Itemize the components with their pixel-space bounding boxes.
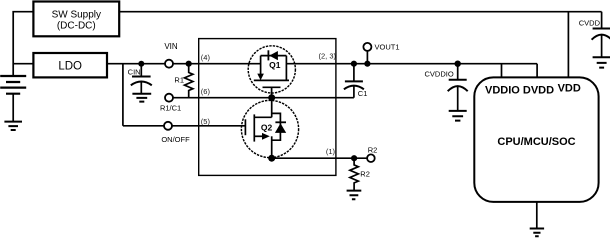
transistor Q1 [248,46,295,98]
svg-text:LDO: LDO [58,61,82,73]
wire battery to LDO input [13,63,33,65]
junction VOUT1 [364,61,370,67]
resistor R2 [350,158,358,190]
block CPU/MCU/SOC [474,77,598,201]
wire CPU to ground [536,202,538,229]
ground (CVDD) [593,57,610,67]
junction R1 top [186,61,192,67]
wire SW Supply output top rail [119,11,601,13]
svg-text:(4): (4) [201,53,211,62]
junction CVDDIO [455,61,461,67]
wire VDD branch [567,12,569,78]
junction Q2 source node [268,155,275,162]
svg-text:CVDD: CVDD [579,18,601,27]
junction C1 [351,61,357,67]
svg-text:VDDIO DVDD: VDDIO DVDD [485,85,554,97]
svg-text:ON/OFF: ON/OFF [161,135,190,144]
ground (battery) [4,122,22,130]
svg-text:SW Supply: SW Supply [52,10,101,21]
block SW Supply (DC-DC) [33,2,119,37]
svg-text:VDD: VDD [558,83,581,95]
terminal R1/C1 [165,94,173,102]
svg-text:R2: R2 [360,170,370,179]
wire VIN rail to ON/OFF [122,64,124,126]
svg-text:(DC-DC): (DC-DC) [57,20,96,31]
capacitor CIN [131,64,152,94]
svg-text:VIN: VIN [164,42,178,51]
svg-text:R1/C1: R1/C1 [160,103,181,112]
ground (CVDDIO) [449,111,467,121]
body diode of Q1 [267,50,269,60]
capacitor CVDDIO [448,64,468,111]
body diode of Q2 [275,121,286,123]
terminal ON/OFF [164,122,172,130]
capacitor C1 [344,64,364,98]
svg-text:R2: R2 [368,145,378,154]
svg-text:CPU/MCU/SOC: CPU/MCU/SOC [497,136,575,148]
junction Q1 gate / Q2 drain node [268,94,275,101]
block LDO [33,53,107,77]
wire Q2 source to R2 pin 1 [272,157,367,159]
wire ON/OFF to Q2 gate pin 5 [123,125,245,127]
svg-text:Q2: Q2 [261,122,273,132]
svg-text:(5): (5) [201,117,211,126]
resistor R1 [185,64,193,98]
wire DVDD pin [536,64,538,78]
ground (CPU) [530,229,544,237]
transistor Q2 [241,98,298,159]
terminal VOUT1 [366,47,368,64]
wire Q1 drain VOUT rail [286,63,537,65]
junction CIN [138,61,144,67]
svg-text:(6): (6) [201,87,211,96]
svg-text:C1: C1 [358,89,368,98]
svg-text:Q1: Q1 [269,60,281,70]
terminal VIN [165,60,173,68]
battery V1 [0,76,26,94]
svg-text:(2, 3): (2, 3) [318,52,336,61]
svg-text:CVDDIO: CVDDIO [425,70,454,79]
wire VDDIO pin [501,64,503,78]
ground (CIN) [132,94,151,102]
ground (R2) [347,191,362,200]
terminal R2 [367,154,375,162]
svg-text:R1: R1 [174,75,184,84]
svg-text:CIN: CIN [128,68,141,77]
wire battery to ground [12,94,14,122]
wire R1/C1 to Q1 gate node pin 6 [169,97,354,99]
wire LDO output VIN rail [107,63,261,65]
wire battery to SW Supply input [13,12,33,76]
capacitor CVDD [592,12,610,58]
svg-text:VOUT1: VOUT1 [375,42,400,51]
svg-text:(1): (1) [326,147,336,156]
junction R2 [351,155,357,161]
IC boundary box [199,39,336,176]
